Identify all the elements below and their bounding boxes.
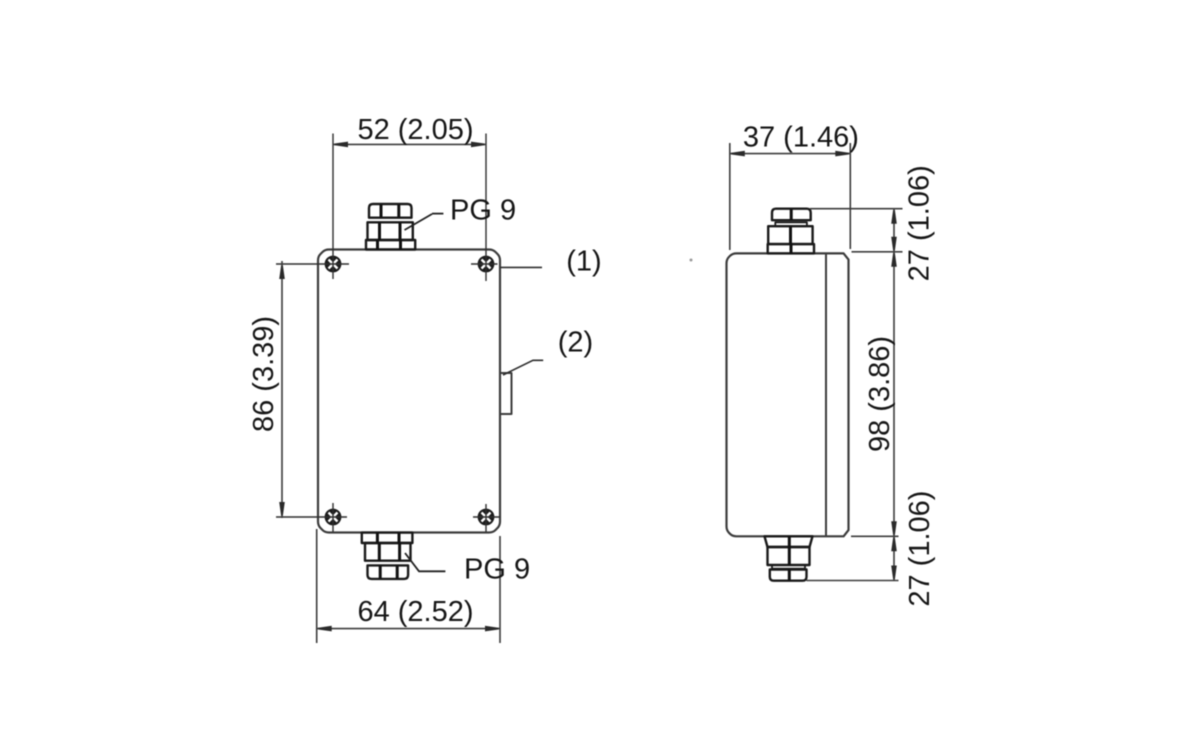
corner screw bottom-right: [476, 507, 496, 527]
top gland side facet line: [789, 209, 793, 253]
top cable gland side view: [768, 209, 814, 254]
leader (1): [500, 266, 542, 268]
dimension 37 (1.46): [730, 143, 851, 250]
corner screw top-left: [323, 254, 343, 274]
bottom gland facet lines: [377, 533, 399, 579]
bottom gland side facet line: [788, 536, 791, 580]
svg-text:27 (1.06): 27 (1.06): [904, 491, 936, 607]
svg-text:52 (2.05): 52 (2.05): [357, 114, 473, 146]
arrows on right dimension stack: [891, 210, 897, 579]
corner screw top-right: [476, 254, 496, 274]
dimension line vertical: [893, 209, 895, 581]
lid seam line: [825, 253, 827, 536]
svg-text:37 (1.46): 37 (1.46): [743, 122, 859, 154]
enclosure body front view: [318, 250, 500, 533]
svg-text:98 (3.86): 98 (3.86): [864, 336, 896, 452]
dimension 64 (2.52): [317, 529, 500, 643]
dimension 52 (2.05): [333, 142, 486, 148]
right dimension stack extension lines: [807, 209, 903, 581]
stray dot artifact: [690, 259, 693, 262]
screw crosshairs: [276, 134, 500, 533]
top gland facet lines: [378, 205, 401, 250]
enclosure body side view: [727, 253, 849, 536]
top cable gland PG9 front view: [366, 204, 415, 250]
leader (2): [503, 360, 543, 375]
svg-text:64 (2.52): 64 (2.52): [357, 596, 473, 628]
corner screw bottom-left: [323, 507, 343, 527]
svg-text:PG 9: PG 9: [450, 195, 516, 227]
dimension 86 (3.39): [279, 261, 285, 518]
bottom cable gland side view: [765, 536, 813, 580]
svg-text:PG 9: PG 9: [464, 553, 530, 585]
svg-text:(2): (2): [558, 327, 593, 359]
hinge tab right side: [500, 373, 512, 414]
svg-text:(1): (1): [566, 246, 601, 278]
svg-text:86 (3.39): 86 (3.39): [248, 316, 280, 432]
svg-text:27 (1.06): 27 (1.06): [904, 165, 936, 281]
bottom cable gland PG9 front view: [362, 533, 413, 579]
